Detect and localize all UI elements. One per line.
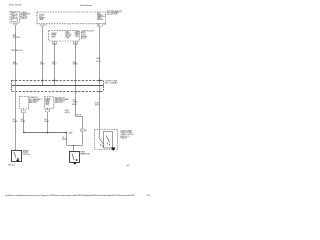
- ABS controller module C: [49, 31, 80, 41]
- module C internal text 3: [75, 31, 80, 39]
- splice label left of wire L4: [65, 110, 70, 114]
- svg-text:18 BR: 18 BR: [73, 64, 78, 66]
- wire L1 from fuse block down to joint connector bus: [15, 25, 17, 86]
- pin tick L3 top: [53, 80, 55, 82]
- wire L5 lower label: [95, 103, 101, 107]
- wire stub into park brake switch: [73, 146, 75, 152]
- svg-text:18 BR: 18 BR: [73, 102, 78, 104]
- module E pin box: [45, 108, 50, 112]
- switch F contact dot: [76, 159, 78, 161]
- connector pin box on branch: [81, 129, 85, 132]
- svg-text:Brake Warning: Brake Warning: [80, 5, 92, 7]
- connector pin box under C pin 2: [73, 41, 78, 46]
- svg-text:8W-35-2: 8W-35-2: [8, 164, 15, 166]
- wire from connector D to splice bar: [23, 113, 25, 133]
- connector pin box under cluster right: [97, 23, 102, 27]
- switch F ground arrow: [73, 162, 77, 164]
- svg-text:C3: C3: [104, 24, 106, 26]
- wire drop from splice S2: [66, 133, 68, 146]
- junction dot L4-bar: [75, 85, 77, 87]
- fuse element A3: [12, 19, 18, 22]
- cluster internal right text: [97, 13, 105, 21]
- svg-text:BRAKE SW: BRAKE SW: [80, 152, 90, 155]
- park brake switch F: [70, 152, 80, 163]
- pin tick L4 top: [74, 80, 76, 82]
- wire L2 from cluster down to joint connector bus: [42, 26, 44, 86]
- pin tick L4 bottom: [74, 91, 76, 93]
- fuse block module A (TIPM): [10, 12, 20, 24]
- wire horizontal join to park brake switch: [67, 145, 83, 147]
- joint connector bus bar: [12, 85, 104, 87]
- switch G name text: [121, 129, 135, 139]
- svg-text:31: 31: [81, 130, 83, 132]
- svg-text:G109: G109: [96, 58, 100, 60]
- svg-text:DRIVER: DRIVER: [97, 19, 104, 21]
- svg-text:S345: S345: [69, 133, 73, 135]
- junction dot L3-top: [54, 80, 56, 82]
- svg-text:8W-35: 8W-35: [65, 112, 70, 114]
- brake fluid level switch I: [12, 151, 22, 162]
- wire L1 lower label: [13, 61, 19, 66]
- junction dot L1-bar: [15, 85, 17, 87]
- connector D pin box: [21, 109, 26, 113]
- wire L4 from module C pin2 down through joint connector: [75, 41, 77, 117]
- switch G inner dots: [107, 143, 108, 144]
- wire D label: [21, 119, 26, 123]
- svg-text:F23: F23: [12, 13, 15, 15]
- svg-text:(HCU): (HCU): [81, 38, 87, 40]
- module E internal text: [45, 97, 50, 106]
- svg-text:my.alldata.com/alldata/article: my.alldata.com/alldata/article/display?w…: [5, 194, 136, 197]
- connector D (below bus, left): [19, 97, 29, 109]
- svg-text:18 BR: 18 BR: [72, 104, 77, 106]
- module C internal text 1: [51, 32, 57, 38]
- wire left drop from bus bar to brake fluid switch: [15, 86, 17, 151]
- connector D name text: [29, 97, 42, 104]
- left drop wire label: [13, 119, 18, 123]
- junction dot L5-top: [99, 80, 101, 82]
- switch F lever: [72, 153, 74, 160]
- switch G contact dots: [100, 144, 101, 145]
- svg-text:1/9/24, 3:41 PM: 1/9/24, 3:41 PM: [9, 5, 22, 7]
- switch I ground arrow: [16, 160, 20, 162]
- junction dot L2-top: [42, 80, 44, 82]
- svg-text:SWITCH: SWITCH: [23, 154, 31, 156]
- module A label text: [20, 11, 31, 20]
- switch module E (below bus, middle): [45, 97, 54, 108]
- cluster name text: [107, 12, 123, 16]
- wire L5 upper label: [96, 58, 102, 63]
- wire L4 jog right: [76, 116, 83, 118]
- svg-text:G05: G05: [126, 165, 129, 167]
- switch G internal sub box: [104, 132, 113, 149]
- switch G lever 1: [99, 137, 104, 144]
- junction dot at switch feed: [73, 145, 75, 147]
- fuse element values: [12, 13, 15, 21]
- pin tick left drop bottom: [14, 91, 16, 93]
- switch I lever: [14, 152, 16, 158]
- module C internal text 2: [66, 30, 73, 39]
- svg-text:CTRL: CTRL: [66, 37, 70, 39]
- wire L4 branch down: [82, 117, 84, 146]
- svg-text:CLUSTER: CLUSTER: [107, 14, 118, 16]
- switch I pin tick: [14, 149, 16, 151]
- svg-text:18 LG: 18 LG: [52, 64, 57, 66]
- connector pin box under C pin 1: [52, 41, 57, 46]
- switch F name text: [80, 151, 90, 156]
- fuse element A2: [12, 16, 18, 18]
- svg-text:18 RD/WT: 18 RD/WT: [13, 37, 21, 39]
- junction dot E-bar2: [47, 132, 49, 134]
- joint connector name text: [105, 81, 118, 85]
- switch I contact dot: [17, 158, 19, 160]
- joint connector block (dashed): [12, 81, 104, 92]
- cluster internal left text: [39, 15, 45, 22]
- module C name text: [81, 30, 95, 39]
- junction dot end-bar2: [65, 132, 67, 134]
- switch G wire stub: [99, 130, 101, 138]
- svg-text:B+: B+: [12, 19, 14, 21]
- svg-text:BLACK: BLACK: [121, 137, 128, 140]
- svg-text:NO. 1 (GRAY): NO. 1 (GRAY): [105, 82, 118, 85]
- junction dot D-bar2: [23, 132, 25, 134]
- switch G lever 2: [106, 136, 110, 143]
- svg-text:S110 8W-10-17: S110 8W-10-17: [11, 50, 23, 52]
- splice bar S2: [24, 132, 67, 134]
- wire L1 gauge label: [13, 34, 21, 39]
- wire E label: [44, 119, 49, 123]
- switch G ground arrow: [111, 148, 116, 151]
- svg-text:C2: C2: [45, 25, 47, 27]
- svg-text:18 RD: 18 RD: [13, 64, 19, 66]
- instrument cluster module B: [37, 12, 105, 24]
- pin tick L5 top: [98, 80, 100, 82]
- wire from module E to splice bar: [47, 112, 49, 133]
- pin tick L5 bottom: [98, 91, 100, 93]
- svg-text:(8W-35-4): (8W-35-4): [29, 102, 37, 104]
- pin tick L1 top: [14, 80, 16, 82]
- wire L3 label: [52, 62, 57, 66]
- wire L4 mid label: [72, 100, 78, 107]
- pin tick L2 top: [41, 80, 43, 82]
- connector pin box under A: [14, 23, 17, 25]
- svg-text:31: 31: [85, 130, 87, 132]
- connector pin box under cluster left: [41, 24, 44, 26]
- wire L3 from module C pin1 to joint connector bus: [54, 41, 56, 86]
- switch I name text: [23, 150, 31, 156]
- svg-text:CTRL: CTRL: [75, 36, 79, 38]
- svg-text:FUSE 23: FUSE 23: [20, 18, 27, 20]
- svg-text:(8W-35-6): (8W-35-6): [55, 102, 63, 104]
- wire L2 label: [40, 62, 46, 66]
- drop2 wire label: [62, 137, 67, 141]
- stop lamp switch G (dashed): [95, 130, 118, 150]
- fuse element A1: [12, 12, 18, 14]
- svg-text:CTRL: CTRL: [45, 104, 49, 106]
- wire L4 upper label: [73, 62, 78, 66]
- wire L5 from cluster right pin down to stop lamp switch: [99, 26, 101, 129]
- module E name text: [55, 97, 70, 104]
